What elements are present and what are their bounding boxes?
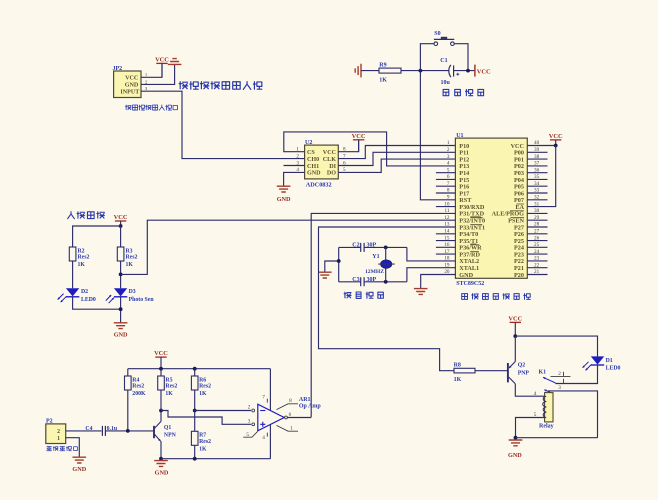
svg-text:1: 1 — [57, 436, 60, 442]
photodiode D3 Photo Sen — [114, 288, 127, 296]
transistor Q1 NPN — [153, 426, 155, 438]
svg-text:32: 32 — [534, 195, 540, 201]
svg-text:R7: R7 — [199, 433, 206, 439]
svg-text:R2: R2 — [78, 248, 85, 254]
svg-text:37: 37 — [534, 161, 540, 167]
svg-text:23: 23 — [534, 256, 540, 262]
transistor Q2 PNP — [507, 363, 509, 382]
JP2 pin 1 wire to VCC — [141, 63, 162, 77]
svg-text:1K: 1K — [165, 391, 173, 397]
svg-text:NPN: NPN — [164, 433, 177, 439]
node reset junction right — [466, 69, 470, 73]
wire non-inverting route to op-amp pin3 — [161, 411, 251, 425]
wire Q1 collector — [160, 411, 162, 422]
wire U2 DI pin6 to U1 P11 pin2 — [338, 152, 455, 165]
wire P2 pin2 to C4 — [66, 430, 102, 432]
op-amp AR1 pin8 stub — [277, 404, 299, 410]
svg-text:C1: C1 — [440, 58, 447, 64]
svg-text:STC89C52: STC89C52 — [456, 281, 484, 287]
svg-text:R9: R9 — [379, 63, 386, 69]
node VCC junction — [119, 224, 123, 228]
svg-text:12MHZ: 12MHZ — [365, 269, 384, 275]
wire R3 to D3 — [120, 261, 122, 288]
svg-text:5: 5 — [246, 432, 249, 438]
svg-text:GND: GND — [155, 469, 169, 476]
wire inverting input to op-amp pin2 — [195, 410, 251, 412]
wire crystal left rail — [338, 247, 340, 281]
resistor R8 — [454, 368, 475, 373]
JP2 pin 3 INPUT wire to ADC CH0 — [141, 91, 305, 158]
svg-text:DI: DI — [329, 164, 336, 170]
wire VCC to Q2 emitter — [514, 336, 516, 361]
svg-text:35: 35 — [534, 174, 540, 180]
resistor R4 — [127, 369, 129, 376]
LED D1 LED0 — [591, 356, 604, 364]
svg-text:1: 1 — [290, 426, 293, 432]
svg-text:38: 38 — [534, 154, 540, 160]
svg-text:22: 22 — [534, 262, 540, 268]
svg-text:2: 2 — [447, 147, 450, 153]
resistor R6 — [194, 369, 196, 376]
resistor R3 — [117, 247, 124, 261]
svg-text:GND: GND — [307, 171, 321, 177]
svg-text:8: 8 — [289, 398, 292, 404]
svg-text:1K: 1K — [199, 446, 207, 452]
node R5 top junction — [159, 367, 163, 371]
svg-text:Q2: Q2 — [518, 363, 526, 369]
resistor R5 — [160, 369, 162, 376]
svg-text:26: 26 — [534, 235, 540, 241]
svg-text:4: 4 — [262, 435, 265, 441]
svg-text:3: 3 — [447, 154, 450, 160]
svg-text:21: 21 — [534, 269, 540, 275]
svg-text:Res2: Res2 — [165, 384, 177, 390]
label guangqiangdu ceshi shuru duan — [179, 82, 262, 90]
wire switch S0 right — [454, 44, 468, 71]
svg-text:U2: U2 — [305, 140, 312, 146]
label fuwei dianlu (reset circuit) — [443, 89, 483, 95]
wire photodetector to U1 P32 pin12 — [121, 220, 456, 274]
wire VCC rail to R2 — [73, 226, 121, 247]
relay coil pin5 wire to GND — [516, 418, 545, 438]
wire VCC to EA pin31 — [527, 146, 555, 207]
svg-text:VCC: VCC — [323, 150, 336, 156]
svg-text:D2: D2 — [81, 289, 88, 295]
svg-text:AR1: AR1 — [299, 397, 311, 403]
relay K1 coil — [545, 393, 553, 422]
node crystal gnd junction — [337, 259, 341, 263]
svg-text:VCC: VCC — [125, 76, 138, 82]
svg-text:R3: R3 — [126, 248, 133, 254]
svg-text:200K: 200K — [132, 391, 146, 397]
svg-text:15: 15 — [444, 235, 450, 241]
svg-text:CLK: CLK — [323, 157, 336, 163]
svg-text:1: 1 — [447, 140, 450, 146]
wire R8 to Q2 base — [475, 370, 507, 372]
node C4-R4-base junction — [126, 429, 130, 433]
wire bottom to GND — [73, 297, 121, 309]
svg-text:1K: 1K — [199, 391, 207, 397]
svg-text:5: 5 — [534, 412, 537, 418]
U1 pin40 VCC wire — [527, 145, 555, 147]
svg-text:30: 30 — [534, 208, 540, 214]
wire reset node to U1 RST pin 9 — [420, 71, 455, 200]
wire R5 bottom — [160, 390, 162, 411]
svg-text:24: 24 — [534, 249, 540, 255]
svg-text:3: 3 — [248, 418, 251, 424]
wire Q2 collector to coil pin4 — [515, 384, 544, 396]
resistor R9 — [379, 68, 401, 73]
svg-text:1K: 1K — [379, 78, 387, 84]
wire to switch S0 left — [420, 44, 434, 71]
svg-text:10u: 10u — [441, 80, 451, 86]
svg-text:GND: GND — [459, 272, 473, 279]
svg-text:2: 2 — [296, 153, 299, 159]
svg-text:C4: C4 — [85, 426, 92, 432]
wire U2 DO pin5 to U1 P12 pin3 — [338, 159, 455, 172]
svg-text:Res2: Res2 — [199, 439, 211, 445]
wire VCC rail to D1 — [515, 336, 597, 356]
wire C2 row — [339, 246, 361, 248]
svg-text:Res2: Res2 — [78, 255, 90, 261]
svg-text:2: 2 — [248, 404, 251, 410]
node Q2 VCC junction — [513, 334, 517, 338]
svg-text:DO: DO — [327, 171, 336, 177]
label danpianji zuixiao xitong (MCU minimal system) — [462, 294, 531, 300]
svg-text:1K: 1K — [78, 262, 86, 268]
svg-text:2: 2 — [558, 371, 561, 377]
op-amp AR1 pin1 stub — [277, 425, 299, 431]
wire Q1 emitter to rail — [160, 441, 162, 459]
svg-text:36: 36 — [534, 167, 540, 173]
relay K1 common pin1 wire — [544, 390, 550, 393]
node reset junction left — [419, 69, 423, 73]
wire bottom gnd rail — [516, 437, 598, 439]
svg-text:10: 10 — [444, 201, 450, 207]
svg-text:GND: GND — [114, 332, 128, 339]
svg-text:VCC: VCC — [477, 68, 491, 75]
wire op-amp output — [287, 417, 311, 419]
U2 pin 3 CH1 stub — [284, 165, 305, 167]
svg-text:9: 9 — [447, 195, 450, 201]
wire to U1 XTAL1 pin19 — [407, 268, 456, 282]
earth ground (U1 pin20) — [414, 289, 428, 295]
svg-text:VCC: VCC — [155, 56, 169, 63]
wire U2 CLK pin7 to U1 P10 pin1 — [338, 146, 455, 159]
svg-text:39: 39 — [534, 147, 540, 153]
node R6 top junction — [193, 367, 197, 371]
node R3-D3 junction — [119, 273, 123, 277]
svg-text:P20: P20 — [514, 272, 524, 279]
svg-text:D1: D1 — [606, 358, 613, 364]
wire D1 to relay contact 3 — [555, 365, 597, 383]
svg-text:GND: GND — [72, 466, 86, 473]
svg-text:28: 28 — [534, 222, 540, 228]
svg-text:Res2: Res2 — [199, 384, 211, 390]
connector P2 microphone — [46, 424, 66, 444]
svg-text:4: 4 — [447, 161, 450, 167]
svg-text:Relay: Relay — [539, 423, 554, 429]
svg-text:VCC: VCC — [508, 315, 522, 322]
wire to U1 XTAL2 pin18 — [407, 247, 456, 261]
svg-text:GND: GND — [125, 83, 139, 89]
svg-text:CH1: CH1 — [307, 164, 319, 170]
U1 left pin stubs and numbers — [436, 172, 456, 174]
wire C3 row — [339, 281, 361, 283]
earth ground (P2) — [73, 457, 87, 463]
svg-text:Op Amp: Op Amp — [299, 403, 322, 409]
svg-text:CH0: CH0 — [307, 157, 319, 163]
wire op-amp V- to rail — [269, 425, 271, 459]
svg-text:D3: D3 — [129, 289, 136, 295]
connector JP2 — [114, 71, 141, 98]
svg-text:R8: R8 — [454, 363, 461, 369]
earth ground (U2) — [277, 186, 291, 192]
svg-text:PNP: PNP — [518, 370, 530, 376]
earth ground (reset left) — [355, 64, 361, 78]
IC U1 STC89C52 body — [455, 138, 527, 278]
U2 pin 4 GND wire — [284, 172, 305, 186]
node C2-Y1 junction — [384, 246, 388, 250]
svg-text:14: 14 — [444, 229, 450, 235]
node U1 VCC junction — [554, 144, 558, 148]
svg-text:Res2: Res2 — [132, 384, 144, 390]
svg-text:6: 6 — [447, 174, 450, 180]
power port VCC (reset) — [474, 65, 476, 77]
wire R9 to C1 — [401, 70, 449, 72]
U2 pin 8 VCC wire — [338, 140, 358, 152]
earth ground (crystal) — [318, 272, 332, 278]
svg-text:7: 7 — [262, 395, 265, 401]
svg-text:16: 16 — [444, 242, 450, 248]
svg-text:27: 27 — [534, 229, 540, 235]
svg-text:Q1: Q1 — [164, 425, 172, 431]
relay K1 lever — [543, 377, 556, 383]
svg-text:GND: GND — [508, 452, 522, 459]
svg-text:VCC: VCC — [114, 214, 128, 221]
wire C1 to VCC — [454, 70, 475, 72]
wire earth to R9 — [361, 70, 379, 72]
label zhujifeng jiekou (mic interface) — [47, 446, 78, 450]
svg-text:17: 17 — [444, 249, 450, 255]
wire bottom rail — [161, 458, 270, 460]
svg-text:R5: R5 — [165, 377, 172, 383]
earth ground (JP2) — [168, 59, 182, 65]
wire C4 to base node — [105, 430, 153, 432]
op-amp AR1 — [258, 404, 284, 431]
earth ground (human detect) — [114, 323, 128, 329]
svg-text:7: 7 — [447, 181, 450, 187]
wire op-amp V+ from rail — [269, 369, 271, 411]
wire U1 P31 pin11 to op-amp output — [311, 213, 455, 417]
svg-text:Res2: Res2 — [126, 255, 138, 261]
wire U1 P33 pin13 to R8 — [319, 227, 456, 371]
node relay gnd junction — [514, 436, 518, 440]
wire P2 pin1 to GND — [66, 438, 80, 457]
node R7 gnd junction — [193, 457, 197, 461]
svg-text:34: 34 — [534, 181, 540, 187]
node R6-R7 junction — [193, 409, 197, 413]
wire R3 top — [120, 226, 122, 247]
svg-text:29: 29 — [534, 215, 540, 221]
svg-text:S0: S0 — [434, 31, 440, 37]
node Q1 collector junction — [159, 409, 163, 413]
op-amp AR1 pin5 stub — [243, 432, 257, 438]
wire R4 bottom to C4 node — [127, 390, 129, 431]
svg-text:INPUT: INPUT — [120, 90, 139, 96]
svg-text:R4: R4 — [132, 377, 139, 383]
svg-text:VCC: VCC — [549, 133, 563, 140]
wire top rail — [128, 368, 271, 370]
wire crystal to earth — [325, 261, 339, 272]
wire R7 bottom to rail — [194, 445, 196, 458]
svg-text:33: 33 — [534, 188, 540, 194]
svg-text:LED0: LED0 — [81, 297, 96, 303]
svg-text:25: 25 — [534, 242, 540, 248]
svg-text:4: 4 — [534, 391, 537, 397]
svg-text:3: 3 — [558, 385, 561, 391]
svg-text:2: 2 — [57, 429, 60, 435]
node D3 gnd junction — [119, 307, 123, 311]
svg-text:P2: P2 — [46, 419, 53, 425]
svg-text:Y1: Y1 — [372, 254, 379, 260]
earth ground (amplifier) — [154, 461, 168, 467]
earth ground (relay) — [509, 440, 523, 446]
svg-text:ADC0832: ADC0832 — [306, 182, 332, 189]
node emitter gnd junction — [159, 457, 163, 461]
wire R2 to D2 — [72, 261, 74, 288]
wire U2 CS pin1 to U1 P13 pin4 — [284, 132, 456, 166]
svg-text:U1: U1 — [456, 133, 463, 139]
label jingzhen dianlu (crystal circuit) — [344, 292, 383, 298]
LED D2 LED0 — [66, 288, 79, 296]
svg-text:5: 5 — [447, 167, 450, 173]
svg-text:JP2: JP2 — [113, 66, 123, 72]
JP2 pin 2 wire to earth — [141, 65, 175, 85]
svg-text:Photo Sen: Photo Sen — [129, 297, 155, 303]
svg-text:1K: 1K — [126, 262, 134, 268]
svg-text:K1: K1 — [539, 370, 547, 376]
node C3-Y1 junction — [384, 280, 388, 284]
wire R6 bottom — [194, 390, 196, 411]
svg-text:CS: CS — [307, 150, 315, 156]
label renti jiance (human detection) — [68, 212, 105, 219]
svg-text:8: 8 — [447, 188, 450, 194]
svg-text:LED0: LED0 — [606, 366, 621, 372]
label guangmin dianzu shuru jiekou — [125, 105, 177, 110]
svg-text:1K: 1K — [454, 377, 462, 383]
resistor R2 — [69, 247, 76, 261]
svg-text:VCC: VCC — [154, 350, 168, 357]
svg-text:R6: R6 — [199, 377, 206, 383]
IC U2 ADC0832 body — [305, 145, 339, 179]
svg-text:GND: GND — [277, 196, 291, 203]
resistor R7 — [194, 411, 196, 432]
svg-text:VCC: VCC — [352, 133, 366, 140]
U1 pin20 GND wire — [421, 275, 456, 289]
